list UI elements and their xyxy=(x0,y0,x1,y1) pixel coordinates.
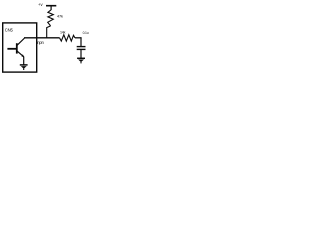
wire base stub xyxy=(7,48,16,50)
svg-text:0.1u: 0.1u xyxy=(83,31,89,35)
transistor Q1 emitter xyxy=(17,51,24,57)
ground GND2 xyxy=(77,58,85,63)
wire C1 top lead xyxy=(80,38,82,46)
svg-text:+v: +v xyxy=(38,2,43,7)
wire C1 bottom lead xyxy=(80,50,82,58)
wire emitter to ground xyxy=(23,57,25,65)
svg-text:npn: npn xyxy=(37,40,44,45)
wire R1 bottom lead xyxy=(47,26,51,38)
resistor R1 47k vertical xyxy=(48,10,54,26)
resistor R2 14k horizontal xyxy=(60,35,75,41)
svg-text:CN5: CN5 xyxy=(5,28,14,33)
transistor Q1 collector xyxy=(17,38,25,46)
svg-text:47k: 47k xyxy=(57,13,63,18)
transistor Q1 base bar xyxy=(16,43,18,53)
wire collector node to R2 xyxy=(24,37,60,39)
capacitor C1 xyxy=(77,47,86,50)
wire R2 to C1 xyxy=(75,37,82,39)
ground GND1 xyxy=(20,65,28,70)
svg-text:14k: 14k xyxy=(60,31,66,35)
power +v xyxy=(38,2,56,10)
device box U1 xyxy=(3,23,37,72)
